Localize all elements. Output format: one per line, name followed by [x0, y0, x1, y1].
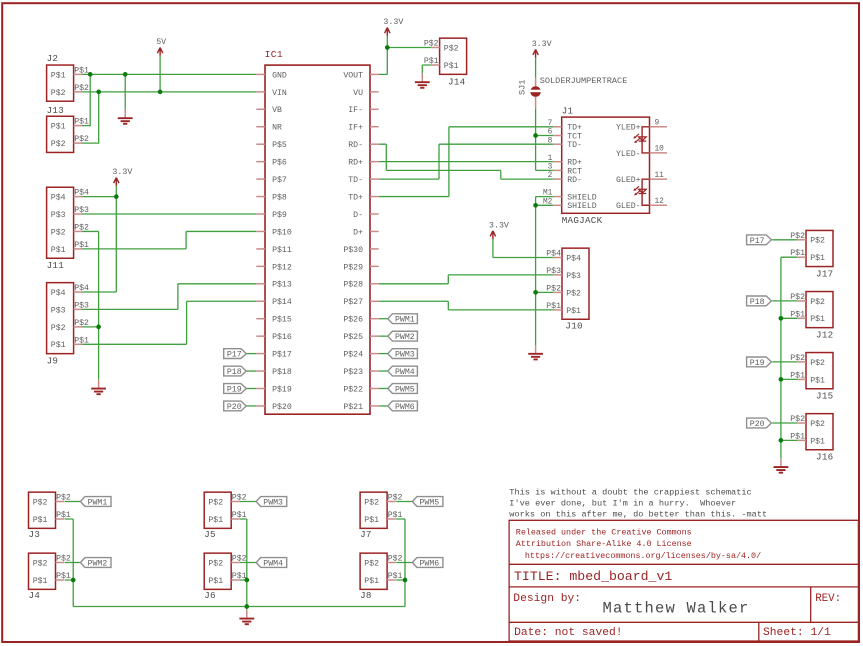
wire P20 net (tag to J16 P$2) [772, 422, 797, 424]
LED GLED inside J1 [642, 179, 649, 205]
svg-text:D-: D- [353, 211, 363, 220]
svg-text:1: 1 [548, 155, 553, 163]
wire IC P$22 to PWM5 tag [379, 388, 388, 390]
svg-text:GLED+: GLED+ [616, 176, 641, 185]
wire IC P$23 to PWM4 tag [379, 370, 388, 372]
svg-text:P$30: P$30 [343, 245, 363, 255]
svg-text:P$2: P$2 [33, 497, 48, 507]
svg-text:P$2: P$2 [208, 497, 223, 507]
svg-text:P$2: P$2 [388, 493, 403, 503]
svg-text:P$1: P$1 [51, 70, 66, 80]
connector J2 [47, 65, 74, 101]
ground (J14) [421, 73, 423, 82]
svg-text:P$14: P$14 [272, 297, 292, 307]
svg-text:P$18: P$18 [272, 367, 292, 377]
svg-text:RCT: RCT [567, 167, 582, 176]
svg-text:P$24: P$24 [343, 350, 363, 360]
svg-text:VOUT: VOUT [343, 71, 363, 80]
net label PWM5 [412, 497, 443, 507]
svg-text:I've ever done, but I'm in a h: I've ever done, but I'm in a hurry. Whoe… [509, 499, 736, 509]
svg-text:REV:: REV: [815, 593, 841, 605]
svg-text:PWM4: PWM4 [263, 560, 283, 569]
svg-text:RD+: RD+ [348, 159, 363, 168]
net label P20 [224, 401, 247, 411]
junction dots [88, 72, 93, 77]
net label PWM1 [80, 497, 111, 507]
svg-text:P$2: P$2 [810, 358, 825, 368]
svg-text:P$1: P$1 [546, 301, 561, 311]
svg-text:J16: J16 [816, 452, 833, 463]
svg-text:P$2: P$2 [790, 353, 805, 363]
svg-text:P$2: P$2 [56, 493, 71, 503]
ground (right column) [780, 458, 782, 467]
svg-text:P$1: P$1 [33, 576, 48, 586]
svg-text:P$1: P$1 [810, 375, 825, 385]
svg-text:SOLDERJUMPERTRACE: SOLDERJUMPERTRACE [540, 76, 628, 86]
svg-text:P$13: P$13 [272, 280, 292, 290]
connector J16 [806, 414, 833, 450]
svg-text:3.3V: 3.3V [489, 221, 509, 230]
svg-text:P$1: P$1 [74, 66, 89, 76]
net label P18 [747, 296, 772, 306]
net label P20 [747, 418, 772, 428]
svg-text:P$2: P$2 [74, 134, 89, 144]
svg-text:P$1: P$1 [810, 314, 825, 324]
svg-text:P$1: P$1 [74, 117, 89, 127]
svg-text:P$4: P$4 [74, 188, 89, 198]
wire 3.3V net left (J11 P$4 / J9 P$4) [82, 186, 117, 292]
wire P19 tag to IC P$19 [246, 388, 257, 390]
svg-text:P$22: P$22 [343, 384, 363, 394]
wire J3/J4 P$1 to GND bus [65, 519, 74, 607]
supply 3.3V (J10) [490, 231, 495, 239]
wire J11 P$3 to IC P$9 [82, 213, 257, 215]
wire P18 tag to IC P$18 [246, 370, 257, 372]
connector J7 [360, 492, 387, 528]
svg-text:P17: P17 [750, 237, 765, 246]
svg-text:J2: J2 [47, 53, 59, 64]
wire J9 P$3 to IC P$13 [82, 284, 257, 310]
svg-text:P$3: P$3 [566, 271, 581, 281]
svg-text:VB: VB [272, 106, 282, 115]
svg-text:PWM1: PWM1 [395, 316, 415, 325]
connector J12 [806, 292, 833, 328]
svg-text:Sheet: 1/1: Sheet: 1/1 [763, 627, 831, 639]
svg-text:P$2: P$2 [364, 558, 379, 568]
svg-text:Attribution Share-Alike 4.0 Li: Attribution Share-Alike 4.0 License [516, 539, 692, 549]
svg-text:VIN: VIN [272, 89, 287, 98]
svg-text:P$2: P$2 [566, 288, 581, 298]
svg-text:P$1: P$1 [56, 510, 71, 520]
svg-text:IF-: IF- [348, 106, 363, 115]
svg-text:P$2: P$2 [74, 83, 89, 93]
svg-text:P$12: P$12 [272, 262, 292, 272]
wire J6 P$2 to PWM4 tag [240, 562, 256, 564]
net label P17 [747, 235, 772, 245]
svg-text:D+: D+ [353, 228, 363, 237]
svg-text:P$1: P$1 [364, 515, 379, 525]
svg-text:P$1: P$1 [444, 61, 459, 71]
svg-text:P$9: P$9 [272, 210, 287, 220]
svg-text:P$2: P$2 [810, 297, 825, 307]
svg-text:P$2: P$2 [790, 292, 805, 302]
connector J8 [360, 553, 387, 589]
svg-text:3.3V: 3.3V [383, 18, 403, 27]
wire P18 net (tag to J12 P$2) [772, 300, 797, 302]
wire SHIELD net M1 M2 to ground [536, 197, 554, 345]
supply 3.3V (left) [114, 178, 119, 186]
svg-text:J7: J7 [360, 529, 372, 540]
svg-text:J13: J13 [47, 105, 64, 116]
svg-text:P$1: P$1 [790, 370, 805, 380]
wire P19 net (tag to J15 P$2) [772, 361, 797, 363]
svg-text:PWM5: PWM5 [420, 499, 440, 508]
title block frame [509, 520, 858, 641]
connector J15 [806, 353, 833, 389]
ground (shield) [535, 345, 537, 354]
svg-text:P$2: P$2 [232, 493, 247, 503]
svg-text:P$1: P$1 [424, 56, 439, 66]
svg-text:P$29: P$29 [343, 262, 363, 272]
svg-text:P$28: P$28 [343, 280, 363, 290]
svg-text:P$23: P$23 [343, 367, 363, 377]
wire IC TD- to MAGJACK TD- [379, 144, 554, 179]
svg-text:P$5: P$5 [272, 140, 287, 150]
wire VIN branch to 5V supply [159, 56, 161, 92]
connector J1 MAGJACK [543, 117, 667, 213]
svg-text:IF+: IF+ [348, 124, 363, 133]
svg-text:6: 6 [548, 129, 553, 137]
wire IC RD- to MAGJACK RD- [379, 144, 554, 179]
wire 3.3V net at VOUT and J14 P$2 [379, 36, 431, 75]
svg-text:J1: J1 [562, 105, 574, 116]
svg-text:J10: J10 [565, 320, 582, 331]
connector J3 [29, 492, 56, 528]
net label P18 [224, 366, 247, 376]
svg-text:5V: 5V [156, 38, 166, 47]
svg-text:P$2: P$2 [388, 554, 403, 564]
svg-text:P$2: P$2 [810, 419, 825, 429]
wire J9 P$1 to IC P$14 [82, 301, 257, 344]
svg-text:3.3V: 3.3V [532, 40, 552, 49]
svg-text:P$4: P$4 [546, 249, 561, 259]
net label PWM1 [388, 314, 418, 324]
svg-text:RD-: RD- [567, 176, 582, 185]
svg-text:P$2: P$2 [424, 39, 439, 49]
wire right column P$1 bus to ground [781, 257, 797, 458]
connector J17 [806, 230, 833, 266]
svg-text:P$1: P$1 [388, 571, 403, 581]
svg-text:P$25: P$25 [343, 332, 363, 342]
wire P17 net right column (tag to J17 P$2) [772, 239, 797, 241]
wire IC P$27 to J10 P$1 [379, 301, 554, 310]
svg-text:3: 3 [548, 164, 553, 172]
svg-text:P$1: P$1 [208, 576, 223, 586]
svg-text:P$3: P$3 [51, 210, 66, 220]
wire bottom GND bus [73, 606, 405, 608]
svg-text:3.3V: 3.3V [112, 168, 132, 177]
svg-text:TITLE: mbed_board_v1: TITLE: mbed_board_v1 [514, 569, 672, 584]
svg-text:P$16: P$16 [272, 332, 292, 342]
svg-text:SHIELD: SHIELD [567, 194, 597, 203]
svg-text:P$8: P$8 [272, 192, 287, 202]
svg-text:P18: P18 [227, 368, 242, 377]
svg-text:9: 9 [655, 120, 660, 128]
svg-text:P$1: P$1 [790, 431, 805, 441]
svg-text:P$2: P$2 [33, 558, 48, 568]
svg-text:P$2: P$2 [56, 554, 71, 564]
svg-text:J9: J9 [47, 355, 59, 366]
svg-text:This is without a doubt the cr: This is without a doubt the crappiest sc… [509, 488, 751, 498]
wire J8 P$2 to PWM6 tag [396, 562, 412, 564]
svg-text:P$1: P$1 [388, 510, 403, 520]
wire J7/J8 P$1 to GND bus [396, 519, 405, 607]
LED YLED inside J1 [642, 127, 649, 153]
ground (left column) [98, 380, 100, 389]
svg-text:P$1: P$1 [56, 571, 71, 581]
wire GND branch to J13 P$1 [82, 74, 91, 125]
connector J4 [29, 553, 56, 589]
net label PWM5 [388, 384, 418, 394]
svg-text:P$1: P$1 [208, 515, 223, 525]
svg-text:P$2: P$2 [810, 236, 825, 246]
svg-text:NR: NR [272, 124, 282, 133]
svg-text:P$3: P$3 [74, 205, 89, 215]
svg-text:P$2: P$2 [208, 558, 223, 568]
wire IC P$28 to J10 P$3 [379, 275, 554, 284]
net label PWM6 [388, 401, 418, 411]
svg-text:P$1: P$1 [364, 576, 379, 586]
solder jumper SJ1 [529, 78, 542, 109]
svg-text:P$19: P$19 [272, 384, 292, 394]
svg-text:TCT: TCT [567, 132, 582, 141]
connector J9 [47, 283, 74, 354]
net label PWM4 [388, 366, 418, 376]
svg-text:works on this after me, do bet: works on this after me, do better than t… [509, 509, 767, 519]
svg-text:VU: VU [353, 89, 363, 98]
svg-text:P$1: P$1 [51, 122, 66, 132]
svg-text:PWM6: PWM6 [420, 560, 440, 569]
wire 3.3V to J10 P$4 [493, 239, 553, 258]
net label PWM2 [80, 558, 111, 568]
svg-text:P$2: P$2 [790, 414, 805, 424]
svg-text:P$3: P$3 [51, 305, 66, 315]
svg-text:P$4: P$4 [51, 288, 66, 298]
svg-text:P$4: P$4 [51, 193, 66, 203]
wire J5 P$2 to PWM3 tag [240, 501, 256, 503]
svg-text:GLED-: GLED- [616, 202, 641, 211]
svg-text:P$15: P$15 [272, 315, 292, 325]
svg-text:P19: P19 [227, 386, 242, 395]
svg-text:GND: GND [272, 71, 287, 80]
svg-text:P$1: P$1 [74, 335, 89, 345]
svg-text:P$3: P$3 [546, 266, 561, 276]
wire GND branch to ground symbol [124, 74, 126, 109]
svg-text:J12: J12 [816, 329, 833, 340]
svg-text:P$2: P$2 [74, 223, 89, 233]
svg-text:P$2: P$2 [51, 88, 66, 98]
connector J14 [440, 38, 467, 74]
svg-text:P$2: P$2 [546, 283, 561, 293]
svg-text:P$1: P$1 [232, 571, 247, 581]
net label P19 [747, 357, 772, 367]
svg-text:P17: P17 [227, 351, 242, 360]
wire J5/J6 P$1 to GND bus and ground [240, 519, 247, 610]
svg-text:P$1: P$1 [74, 240, 89, 250]
svg-text:Released under the Creative Co: Released under the Creative Commons [516, 527, 692, 537]
svg-text:P18: P18 [750, 298, 765, 307]
svg-text:11: 11 [655, 172, 665, 180]
net label PWM3 [388, 349, 418, 359]
svg-text:TD+: TD+ [567, 124, 582, 133]
svg-text:P19: P19 [750, 359, 765, 368]
svg-text:10: 10 [655, 146, 665, 154]
svg-text:IC1: IC1 [265, 49, 283, 60]
svg-text:12: 12 [655, 198, 665, 206]
connector J13 [47, 116, 74, 152]
svg-text:J17: J17 [816, 268, 833, 279]
svg-text:YLED-: YLED- [616, 150, 641, 159]
svg-text:P20: P20 [750, 420, 765, 429]
wire IC TD+ to MAGJACK TD+ [379, 127, 554, 197]
net label PWM4 [256, 558, 287, 568]
svg-text:PWM4: PWM4 [395, 368, 415, 377]
svg-text:PWM2: PWM2 [395, 333, 415, 342]
wire VIN net (J2 P$2 to IC VIN) [82, 91, 257, 93]
svg-text:P$11: P$11 [272, 245, 292, 255]
wire IC P$24 to PWM3 tag [379, 353, 388, 355]
connector J6 [204, 553, 231, 589]
svg-text:J4: J4 [29, 590, 41, 601]
svg-text:P$20: P$20 [272, 402, 292, 412]
wire VIN branch to J13 P$2 [82, 92, 99, 143]
svg-text:PWM3: PWM3 [263, 499, 283, 508]
svg-text:P$17: P$17 [272, 350, 292, 360]
wire J3 P$2 to PWM1 tag [65, 501, 81, 503]
svg-text:TD-: TD- [567, 141, 582, 150]
wire IC P$21 to PWM6 tag [379, 405, 388, 407]
wire P20 tag to IC P$20 [246, 405, 257, 407]
svg-text:P$1: P$1 [566, 306, 581, 316]
svg-text:https://creativecommons.org/li: https://creativecommons.org/licenses/by-… [525, 551, 761, 561]
svg-text:PWM3: PWM3 [395, 351, 415, 360]
svg-text:SJ1: SJ1 [518, 80, 528, 95]
svg-text:P$2: P$2 [74, 318, 89, 328]
svg-text:P$4: P$4 [566, 253, 581, 263]
svg-text:RD+: RD+ [567, 159, 582, 168]
svg-text:P$1: P$1 [232, 510, 247, 520]
svg-text:J11: J11 [47, 260, 65, 271]
svg-text:RD-: RD- [348, 141, 363, 150]
net label PWM2 [388, 331, 418, 341]
wire IC P$26 to PWM1 tag [379, 318, 388, 320]
svg-text:P20: P20 [227, 403, 242, 412]
supply 5V [157, 48, 162, 56]
svg-text:P$2: P$2 [364, 497, 379, 507]
svg-text:J8: J8 [360, 590, 372, 601]
svg-text:P$2: P$2 [444, 43, 459, 53]
svg-text:PWM2: PWM2 [88, 560, 108, 569]
svg-text:P$1: P$1 [51, 340, 66, 350]
IC U1 main part IC1 [256, 65, 378, 414]
svg-text:P$2: P$2 [232, 554, 247, 564]
svg-text:P$21: P$21 [343, 402, 363, 412]
svg-text:P$6: P$6 [272, 158, 287, 168]
svg-text:Date: not saved!: Date: not saved! [514, 627, 622, 639]
svg-text:TD+: TD+ [348, 193, 363, 202]
wire GND net top (J2 P$1 to IC GND) [82, 73, 257, 75]
svg-text:PWM5: PWM5 [395, 386, 415, 395]
svg-text:MAGJACK: MAGJACK [562, 215, 603, 226]
ground (bottom) [246, 610, 248, 619]
wire J4 P$2 to PWM2 tag [65, 562, 81, 564]
svg-text:P$27: P$27 [343, 297, 363, 307]
connector J10 [562, 248, 589, 319]
svg-text:TD-: TD- [348, 176, 363, 185]
svg-text:P$26: P$26 [343, 315, 363, 325]
svg-text:P$10: P$10 [272, 227, 292, 237]
svg-text:SHIELD: SHIELD [567, 202, 597, 211]
wire IC RD+ to MAGJACK RD+ [379, 161, 554, 163]
svg-text:P$1: P$1 [51, 245, 66, 255]
svg-text:YLED+: YLED+ [616, 124, 641, 133]
svg-text:P$1: P$1 [790, 248, 805, 258]
svg-text:P$3: P$3 [74, 301, 89, 311]
svg-text:PWM1: PWM1 [88, 499, 108, 508]
svg-text:M1: M1 [543, 190, 553, 198]
svg-text:P$2: P$2 [51, 139, 66, 149]
svg-text:Design by:: Design by: [513, 593, 581, 605]
svg-text:J3: J3 [29, 529, 41, 540]
svg-text:P$4: P$4 [74, 283, 89, 293]
svg-text:P$2: P$2 [51, 227, 66, 237]
svg-text:J14: J14 [448, 77, 466, 88]
svg-text:J15: J15 [816, 390, 833, 401]
svg-text:J6: J6 [204, 590, 216, 601]
net label P17 [224, 349, 247, 359]
wire J7 P$2 to PWM5 tag [396, 501, 412, 503]
wire J11 P$1 to IC P$10 [82, 231, 257, 248]
svg-text:M2: M2 [543, 198, 553, 206]
wire GND net left column (J11 P$2, J9 P$2, ground) [82, 231, 99, 379]
svg-text:PWM6: PWM6 [395, 403, 415, 412]
svg-text:Matthew Walker: Matthew Walker [603, 600, 750, 618]
svg-text:P$2: P$2 [790, 231, 805, 241]
ground (top left) [124, 109, 126, 118]
wire IC P$25 to PWM2 tag [379, 335, 388, 337]
svg-text:P$1: P$1 [790, 309, 805, 319]
svg-text:8: 8 [548, 137, 553, 145]
svg-text:7: 7 [548, 120, 553, 128]
supply 3.3V (SJ1) [533, 49, 538, 57]
svg-text:J5: J5 [204, 529, 216, 540]
svg-text:P$7: P$7 [272, 175, 287, 185]
wire P17 tag to IC P$17 [246, 353, 257, 355]
connector J5 [204, 492, 231, 528]
svg-text:2: 2 [548, 172, 553, 180]
connector J11 [47, 187, 74, 258]
wire 3.3V / SJ1 to TCT and RCT [535, 58, 537, 78]
svg-text:P$1: P$1 [33, 515, 48, 525]
net label PWM6 [412, 558, 443, 568]
svg-text:P$1: P$1 [810, 253, 825, 263]
svg-text:P$2: P$2 [51, 323, 66, 333]
svg-text:P$1: P$1 [810, 436, 825, 446]
net label P19 [224, 384, 247, 394]
net label PWM3 [256, 497, 287, 507]
supply 3.3V (VOUT) [385, 28, 390, 36]
wire J14 P$1 to ground [422, 65, 431, 73]
